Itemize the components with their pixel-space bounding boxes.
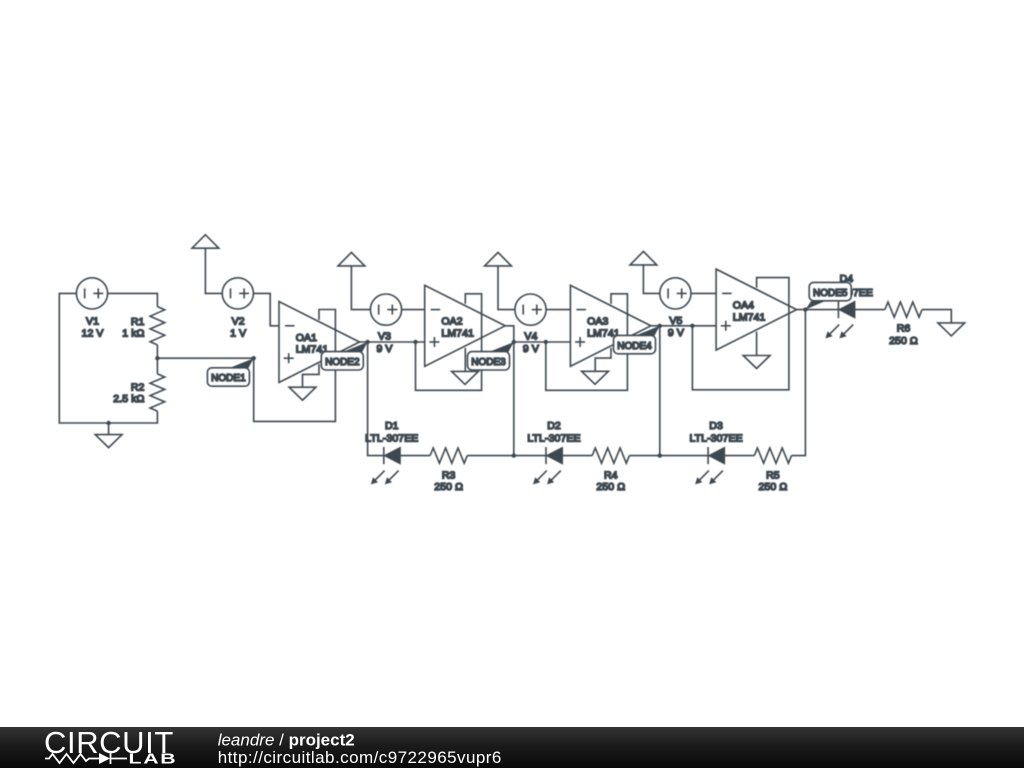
svg-text:LTL-307EE: LTL-307EE: [689, 433, 742, 445]
svg-text:R4: R4: [604, 469, 618, 481]
svg-text:250 Ω: 250 Ω: [596, 481, 625, 493]
svg-text:R1: R1: [131, 316, 145, 328]
svg-text:V4: V4: [524, 330, 537, 342]
svg-text:NODE1: NODE1: [211, 373, 246, 384]
svg-text:250 Ω: 250 Ω: [759, 481, 788, 493]
svg-text:9 V: 9 V: [523, 343, 539, 355]
svg-text:R3: R3: [442, 469, 456, 481]
svg-text:V2: V2: [232, 315, 245, 327]
svg-text:250 Ω: 250 Ω: [434, 481, 463, 493]
svg-text:LTL-307EE: LTL-307EE: [365, 433, 418, 445]
svg-text:1 V: 1 V: [230, 328, 246, 340]
svg-text:D1: D1: [385, 420, 399, 432]
svg-text:V1: V1: [86, 315, 99, 327]
svg-text:NODE5: NODE5: [813, 288, 848, 299]
svg-text:NODE4: NODE4: [617, 341, 652, 352]
svg-text:12 V: 12 V: [82, 328, 104, 340]
svg-text:NODE2: NODE2: [325, 357, 360, 368]
svg-text:D2: D2: [547, 420, 561, 432]
svg-text:9 V: 9 V: [376, 343, 392, 355]
svg-text:http://circuitlab.com/c9722965: http://circuitlab.com/c9722965vupr6: [218, 748, 502, 767]
svg-text:250 Ω: 250 Ω: [889, 335, 918, 347]
svg-text:2.5 kΩ: 2.5 kΩ: [113, 393, 144, 405]
svg-text:OA3: OA3: [587, 316, 608, 328]
svg-text:LTL-307EE: LTL-307EE: [527, 433, 580, 445]
svg-text:1 kΩ: 1 kΩ: [122, 327, 144, 339]
svg-text:NODE3: NODE3: [471, 357, 506, 368]
svg-text:R2: R2: [131, 382, 145, 394]
svg-text:LAB: LAB: [129, 750, 178, 767]
svg-text:OA4: OA4: [733, 299, 754, 311]
svg-text:V3: V3: [378, 330, 391, 342]
svg-text:R5: R5: [766, 469, 780, 481]
svg-text:R6: R6: [897, 323, 911, 335]
svg-text:D3: D3: [709, 420, 723, 432]
svg-text:OA1: OA1: [296, 332, 317, 344]
svg-text:V5: V5: [669, 315, 682, 327]
svg-text:9 V: 9 V: [668, 327, 684, 339]
svg-text:LM741: LM741: [733, 311, 766, 323]
svg-text:LM741: LM741: [441, 328, 474, 340]
svg-text:OA2: OA2: [441, 316, 462, 328]
